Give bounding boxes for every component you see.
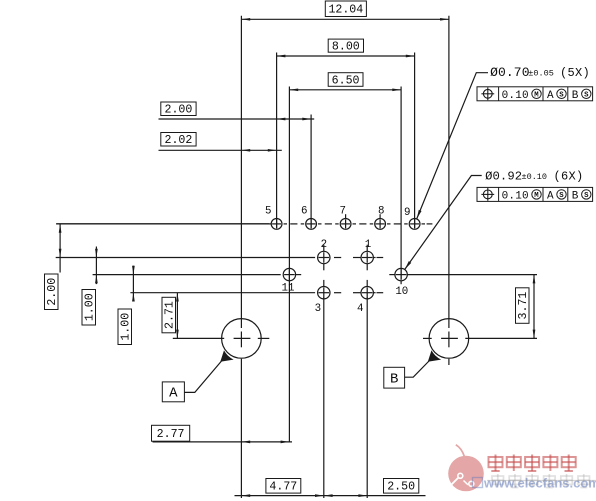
leader for Ø0.92 callout to hole 10 [405,176,482,270]
right body edge extension line (datum B centerline vertical) [448,16,450,328]
dimension 2.77 text box [152,425,190,441]
svg-text:2.00: 2.00 [165,104,193,117]
extension line hole 9 column [414,53,416,229]
row A centerline (holes 5-9) [56,223,269,225]
svg-text:4: 4 [357,303,363,315]
svg-text:2.50: 2.50 [387,481,415,494]
svg-text:0.10: 0.10 [502,190,529,202]
svg-text:0.10: 0.10 [502,90,529,102]
svg-text:10: 10 [395,286,408,298]
hole 1 (Ø0.92) [361,251,373,263]
hole 4 (Ø0.92) [361,287,373,299]
bottom dimension line 4.77 / 2.50 [235,495,426,497]
row B centerline (holes 2,1) [56,257,315,259]
svg-text:A: A [547,190,554,202]
dimension 2.00 vertical text box [45,274,59,310]
dimension 2.02 line [159,149,282,151]
svg-text:12.04: 12.04 [328,4,363,17]
svg-text:7: 7 [340,206,346,218]
vertical centerline dashes holes 7,8 [345,214,347,218]
dimension 12.04 text box [325,1,366,17]
dimension 2.00 text box [161,102,196,116]
svg-text:www.elecfans.com: www.elecfans.com [483,476,596,491]
svg-text:S: S [559,91,564,99]
extension line hole 6 column [310,115,312,229]
extension line hole 5 column [276,53,278,229]
dimension 6.50 line [289,89,401,91]
feature control frame for Ø0.92 holes [477,187,593,201]
svg-text:2: 2 [321,239,327,251]
datum circle A horizontal centerline [173,337,224,339]
svg-text:2.02: 2.02 [165,134,193,147]
dimension 1.00 vertical text box (upper) [82,290,96,326]
vertical centerline dashes holes 2,1 [323,245,325,252]
dimension 1.00 vertical (rowB-rowC) [95,247,97,285]
dimension 1.00 vertical text box (lower) [118,309,132,345]
svg-text:Ø0.92: Ø0.92 [485,170,522,184]
hole 6 (Ø0.70) [306,219,317,230]
datum circle B horizontal centerline [423,337,432,339]
watermark: elecfans logo circle [448,445,484,492]
dimension 2.02 text box [161,133,196,147]
svg-text:±0.05: ±0.05 [528,69,554,79]
datum B leader [405,361,429,377]
svg-text:S: S [584,91,589,99]
vertical centerline dashes above holes 3,4 [323,280,325,287]
svg-text:6.50: 6.50 [332,74,360,87]
dimension 2.00 (pitch) line [159,118,315,120]
dimension 2.50 text box [384,479,419,494]
svg-text:2.00: 2.00 [46,278,59,306]
svg-text:1: 1 [365,239,371,251]
watermark: gray overlay text strokes [492,474,504,488]
svg-text:2.71: 2.71 [164,301,177,329]
datum B filled triangle [428,350,441,362]
dimension 3.71 vertical (rowC-circleB) [533,275,535,339]
row C centerline (holes 11,10) [93,274,281,276]
feature control frame for Ø0.70 holes [477,87,593,101]
dimension 1.00 vertical (rowC-rowD) [132,266,134,301]
svg-text:B: B [390,371,398,387]
dimension 4.77 text box [266,479,301,494]
svg-text:3.71: 3.71 [517,292,530,320]
extension line hole 10 column [400,87,402,279]
left body edge extension line (datum A centerline vertical) [240,16,242,328]
hole 5 (Ø0.70) [271,219,282,230]
svg-text:A: A [547,90,554,102]
row D centerline (holes 3,4) [130,292,315,294]
hole 7 (Ø0.70) [340,219,351,230]
svg-text:M: M [534,91,539,99]
svg-text:S: S [559,192,564,200]
extension line hole 3 column [323,297,325,498]
svg-text:11: 11 [282,282,295,294]
watermark: chinese title strokes (dian zi fa shao you) [489,455,503,472]
vertical centerline dash below hole 10 [400,281,402,284]
datum A leader [184,361,221,392]
dimension 6.50 text box [328,73,363,87]
svg-text:2.77: 2.77 [157,428,185,441]
dimension 8.00 line [277,55,415,57]
svg-text:(6X): (6X) [554,170,584,184]
svg-text:6: 6 [301,206,307,218]
datum target circle A [222,319,262,359]
datum A filled triangle [220,350,233,362]
svg-text:1.00: 1.00 [84,293,97,321]
svg-text:B: B [572,90,579,102]
datum target circle B [429,319,469,359]
svg-text:8.00: 8.00 [332,41,360,54]
svg-text:5: 5 [265,206,271,218]
hole 3 (Ø0.92) [318,287,330,299]
hole 9 (Ø0.70) [409,219,420,230]
svg-text:A: A [169,386,178,402]
extension line hole 11 column [288,87,290,443]
svg-text:B: B [572,190,579,202]
extension line hole 4 column [366,297,368,498]
datum A label box [162,382,184,402]
svg-text:M: M [534,192,539,200]
datum B label box [384,367,405,388]
dimension 2.77 line [153,441,293,443]
hole 10 (Ø0.92) [395,268,407,280]
dimension 2.71 vertical text box [162,297,176,333]
hole 2 (Ø0.92) [318,251,330,263]
svg-text:1.00: 1.00 [120,313,133,341]
svg-text:Ø0.70: Ø0.70 [490,65,530,80]
dimension 12.04 line [241,18,449,20]
leader for Ø0.70 callout to hole 9 [417,73,488,219]
hole 8 (Ø0.70) [375,219,386,230]
svg-text:4.77: 4.77 [269,481,297,494]
svg-text:9: 9 [404,207,410,219]
svg-text:(5X): (5X) [560,66,590,80]
svg-text:3: 3 [315,303,321,315]
hole 11 (Ø0.92) [283,268,295,280]
dimension 3.71 vertical text box [516,288,530,324]
svg-text:±0.10: ±0.10 [522,172,548,182]
dimension 8.00 text box [328,39,363,52]
svg-text:S: S [584,192,589,200]
svg-text:8: 8 [378,206,384,218]
dimension 2.71 vertical (rowD-circleA) [176,293,178,339]
dimension 2.00 vertical (rowA-rowB) [56,223,271,225]
